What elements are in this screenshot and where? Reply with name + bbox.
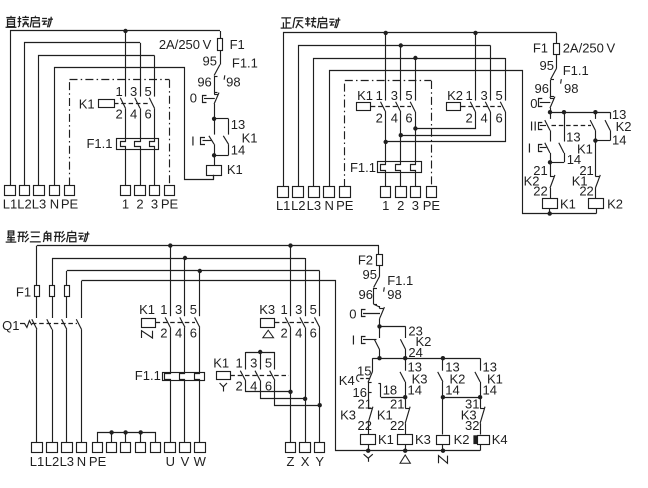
svg-text:4: 4 bbox=[295, 325, 302, 340]
svg-text:2: 2 bbox=[376, 110, 383, 125]
svg-text:18: 18 bbox=[383, 383, 397, 398]
svg-text:5: 5 bbox=[495, 88, 502, 103]
svg-text:K3: K3 bbox=[259, 302, 275, 317]
svg-text:2: 2 bbox=[397, 198, 404, 213]
svg-text:5: 5 bbox=[310, 302, 317, 317]
svg-text:L3: L3 bbox=[307, 198, 321, 213]
svg-text:PE: PE bbox=[61, 197, 79, 212]
svg-text:I: I bbox=[352, 333, 356, 348]
svg-text:F1.1: F1.1 bbox=[350, 160, 376, 175]
svg-text:6: 6 bbox=[495, 110, 502, 125]
svg-text:3: 3 bbox=[295, 302, 302, 317]
svg-text:95: 95 bbox=[540, 58, 554, 73]
svg-text:F1.1: F1.1 bbox=[232, 56, 258, 71]
svg-text:I: I bbox=[528, 140, 532, 155]
svg-text:K4: K4 bbox=[339, 373, 355, 388]
svg-text:L2: L2 bbox=[17, 197, 31, 212]
svg-text:F1.1: F1.1 bbox=[86, 136, 112, 151]
svg-text:F1: F1 bbox=[533, 41, 548, 56]
svg-text:98: 98 bbox=[564, 81, 578, 96]
svg-text:96: 96 bbox=[359, 287, 373, 302]
svg-text:14: 14 bbox=[483, 382, 497, 397]
svg-text:L1: L1 bbox=[30, 454, 44, 469]
svg-text:PE: PE bbox=[89, 454, 107, 469]
svg-text:L3: L3 bbox=[60, 454, 74, 469]
svg-text:6: 6 bbox=[190, 325, 197, 340]
svg-text:14: 14 bbox=[612, 133, 626, 148]
svg-text:V: V bbox=[181, 454, 190, 469]
svg-text:F1.1: F1.1 bbox=[387, 273, 413, 288]
svg-text:L2: L2 bbox=[45, 454, 59, 469]
svg-text:F2: F2 bbox=[358, 253, 373, 268]
svg-text:Q1: Q1 bbox=[2, 318, 19, 333]
svg-text:Z: Z bbox=[287, 454, 295, 469]
svg-text:F1: F1 bbox=[16, 285, 31, 300]
svg-text:I: I bbox=[191, 133, 195, 148]
svg-text:L2: L2 bbox=[291, 198, 305, 213]
svg-text:L3: L3 bbox=[32, 197, 46, 212]
svg-text:Y: Y bbox=[315, 454, 324, 469]
svg-text:6: 6 bbox=[144, 107, 151, 122]
svg-text:W: W bbox=[194, 454, 207, 469]
svg-text:N: N bbox=[77, 454, 86, 469]
svg-text:96: 96 bbox=[535, 81, 549, 96]
svg-text:1: 1 bbox=[280, 302, 287, 317]
svg-text:L1: L1 bbox=[276, 198, 290, 213]
svg-text:2: 2 bbox=[160, 325, 167, 340]
svg-text:K2: K2 bbox=[447, 88, 463, 103]
svg-text:24: 24 bbox=[408, 345, 422, 360]
svg-text:98: 98 bbox=[387, 287, 401, 302]
svg-text:K3: K3 bbox=[340, 408, 356, 423]
svg-text:3: 3 bbox=[480, 88, 487, 103]
svg-text:2: 2 bbox=[465, 110, 472, 125]
svg-text:K2: K2 bbox=[607, 196, 623, 211]
svg-text:F1.1: F1.1 bbox=[135, 368, 161, 383]
svg-text:3: 3 bbox=[130, 84, 137, 99]
svg-text:1: 1 bbox=[376, 88, 383, 103]
svg-text:2: 2 bbox=[280, 325, 287, 340]
svg-text:1: 1 bbox=[465, 88, 472, 103]
svg-text:K1: K1 bbox=[227, 162, 243, 177]
svg-text:2A/250 V: 2A/250 V bbox=[159, 37, 212, 52]
svg-text:3: 3 bbox=[412, 198, 419, 213]
svg-text:6: 6 bbox=[310, 325, 317, 340]
svg-text:1: 1 bbox=[122, 197, 129, 212]
svg-text:15: 15 bbox=[357, 363, 371, 378]
svg-text:2: 2 bbox=[235, 379, 242, 394]
svg-text:1: 1 bbox=[115, 84, 122, 99]
svg-text:98: 98 bbox=[226, 75, 240, 90]
svg-text:0: 0 bbox=[190, 91, 197, 106]
svg-text:14: 14 bbox=[408, 382, 422, 397]
svg-text:K1: K1 bbox=[357, 88, 373, 103]
svg-text:4: 4 bbox=[391, 110, 398, 125]
svg-text:96: 96 bbox=[197, 75, 211, 90]
svg-text:3: 3 bbox=[391, 88, 398, 103]
svg-text:K2: K2 bbox=[454, 432, 470, 447]
svg-text:X: X bbox=[301, 454, 310, 469]
svg-text:U: U bbox=[166, 454, 175, 469]
svg-text:N: N bbox=[325, 198, 334, 213]
svg-text:K1: K1 bbox=[79, 96, 95, 111]
svg-text:F1.1: F1.1 bbox=[563, 63, 589, 78]
svg-text:5: 5 bbox=[405, 88, 412, 103]
svg-text:1: 1 bbox=[160, 302, 167, 317]
svg-text:PE: PE bbox=[161, 197, 179, 212]
svg-text:5: 5 bbox=[144, 84, 151, 99]
svg-text:2: 2 bbox=[115, 107, 122, 122]
svg-text:1: 1 bbox=[235, 356, 242, 371]
svg-text:22: 22 bbox=[390, 418, 404, 433]
svg-text:4: 4 bbox=[130, 107, 137, 122]
svg-text:K1: K1 bbox=[139, 302, 155, 317]
svg-text:2A/250 V: 2A/250 V bbox=[563, 41, 616, 56]
svg-text:95: 95 bbox=[363, 267, 377, 282]
svg-text:22: 22 bbox=[533, 184, 547, 199]
svg-text:K3: K3 bbox=[415, 432, 431, 447]
svg-text:22: 22 bbox=[358, 418, 372, 433]
svg-text:5: 5 bbox=[190, 302, 197, 317]
svg-text:3: 3 bbox=[151, 197, 158, 212]
svg-text:14: 14 bbox=[445, 382, 459, 397]
svg-text:4: 4 bbox=[480, 110, 487, 125]
svg-text:6: 6 bbox=[405, 110, 412, 125]
svg-text:32: 32 bbox=[465, 418, 479, 433]
svg-text:K1: K1 bbox=[560, 196, 576, 211]
svg-text:F1: F1 bbox=[230, 37, 245, 52]
svg-text:3: 3 bbox=[250, 356, 257, 371]
svg-text:PE: PE bbox=[423, 198, 441, 213]
svg-text:5: 5 bbox=[265, 356, 272, 371]
svg-text:N: N bbox=[50, 197, 59, 212]
svg-text:21: 21 bbox=[358, 397, 372, 412]
svg-text:K1: K1 bbox=[213, 356, 229, 371]
svg-text:95: 95 bbox=[203, 53, 217, 68]
svg-text:14: 14 bbox=[231, 142, 245, 157]
svg-text:1: 1 bbox=[382, 198, 389, 213]
svg-text:0: 0 bbox=[530, 96, 537, 111]
svg-text:22: 22 bbox=[579, 184, 593, 199]
svg-text:II: II bbox=[530, 119, 537, 134]
svg-text:2: 2 bbox=[136, 197, 143, 212]
svg-text:0: 0 bbox=[349, 307, 356, 322]
svg-text:K4: K4 bbox=[492, 432, 508, 447]
svg-text:3: 3 bbox=[175, 302, 182, 317]
svg-text:L1: L1 bbox=[3, 197, 17, 212]
svg-text:PE: PE bbox=[336, 198, 354, 213]
svg-text:K1: K1 bbox=[378, 432, 394, 447]
svg-text:4: 4 bbox=[175, 325, 182, 340]
